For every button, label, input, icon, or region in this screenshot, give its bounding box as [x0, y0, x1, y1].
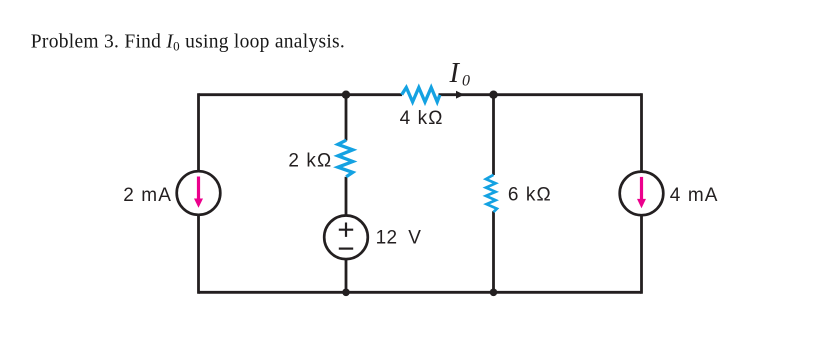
- junction node bottom branch2: [342, 289, 350, 297]
- junction node bottom branch3: [490, 289, 498, 297]
- svg-text:Problem 3. Find I0 using loop: Problem 3. Find I0 using loop analysis.: [31, 31, 345, 53]
- wire: branch2 bottom (12V source to bottom rail): [345, 259, 348, 292]
- svg-text:2 kΩ: 2 kΩ: [288, 151, 332, 172]
- svg-text:6 kΩ: 6 kΩ: [508, 184, 552, 205]
- junction node top branch2: [342, 91, 350, 99]
- minus sign: [339, 248, 353, 250]
- resistor R 6k (vertical zigzag, cyan): [486, 175, 497, 212]
- wire: branch3 top (top rail to 6k resistor): [492, 95, 495, 175]
- svg-text:2 mA: 2 mA: [123, 185, 172, 206]
- current arrow I0 on top wire: [456, 91, 464, 99]
- resistor R 4k (horizontal zigzag, cyan): [402, 88, 440, 102]
- voltage source 12V (circle): [324, 216, 368, 260]
- junction node top branch3: [489, 91, 497, 99]
- wire: left branch top (to 2mA source): [197, 93, 200, 171]
- 2mA arrow (magenta): [197, 177, 200, 200]
- wire: top rail left segment (from top-left corner to 4k resistor): [199, 93, 403, 96]
- resistor R 2k (vertical zigzag, cyan): [338, 140, 353, 177]
- current source 4mA (circle): [620, 172, 664, 216]
- current source 2mA (circle): [177, 171, 221, 215]
- wire: bottom rail: [199, 291, 642, 294]
- wire: branch3 bottom (6k resistor to bottom rail): [492, 211, 495, 292]
- plus sign: [339, 223, 353, 237]
- 4mA arrow (magenta): [640, 177, 643, 200]
- wire: left branch bottom (from 2mA source): [197, 215, 200, 294]
- wire: top rail right segment (from 4k resistor to top-right corner): [439, 93, 642, 96]
- svg-text:4 kΩ: 4 kΩ: [400, 108, 444, 129]
- svg-text:I0: I0: [449, 58, 471, 90]
- wire: branch2 top (top rail to 2k resistor): [345, 95, 348, 141]
- wire: branch2 middle (2k resistor to 12V source): [345, 177, 348, 216]
- wire: right branch top (to 4mA source): [640, 93, 643, 171]
- wire: right branch bottom (from 4mA source): [640, 215, 643, 294]
- svg-text:4 mA: 4 mA: [670, 185, 719, 206]
- svg-text:12 V: 12 V: [376, 228, 422, 249]
